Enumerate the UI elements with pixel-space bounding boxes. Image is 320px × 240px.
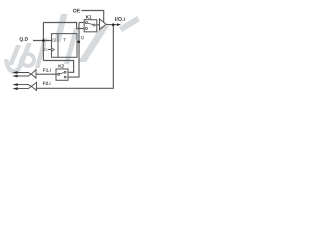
- mux K1 contacts and arm: [85, 22, 96, 30]
- arrowhead IO pin: [117, 23, 121, 26]
- wire OE to buffer enable: [82, 11, 104, 22]
- watermark: [4, 14, 140, 74]
- label K2: [59, 64, 64, 67]
- junction dot Q node: [78, 41, 81, 44]
- wire Q to K1 upper contact: [79, 22, 84, 24]
- arrowhead F1 lower: [12, 75, 17, 78]
- watermark wide slash band right: [78, 26, 109, 62]
- wire top rail to K1 lower contact: [43, 23, 84, 29]
- tri-state buffer: [100, 19, 107, 30]
- label Q: [81, 36, 84, 40]
- mux K2 contacts and arm: [56, 71, 66, 78]
- label T: [63, 38, 66, 41]
- watermark long slash through FF: [64, 28, 79, 64]
- label I/O.i: [115, 17, 124, 21]
- watermark u bowl: [4, 59, 24, 75]
- watermark top-right slab: [119, 16, 140, 32]
- label F2.i: [43, 82, 50, 85]
- wire buffer to IO node: [106, 24, 113, 26]
- feedback buffer F1: [31, 70, 36, 79]
- F1 fork wires: [16, 73, 31, 89]
- wire IO arrow line: [113, 24, 118, 26]
- wire Q vertical: [68, 23, 79, 78]
- label D pin: [53, 38, 56, 41]
- label Q.D: [20, 37, 28, 41]
- arrowhead F2 lower: [12, 87, 17, 90]
- watermark slash mid: [54, 14, 68, 42]
- flip-flop box: [52, 34, 78, 58]
- mux K1 box: [84, 20, 97, 32]
- junction dot node A: [42, 39, 45, 42]
- feedback buffer F2: [31, 82, 36, 90]
- watermark u stroke2: [19, 43, 32, 63]
- wire FF Q stub: [77, 41, 79, 43]
- watermark u stroke1: [8, 45, 21, 65]
- wire node A vertical: [42, 23, 44, 61]
- wire bottom rail to K2 upper contact: [43, 61, 73, 73]
- wire D input from array: [33, 40, 52, 42]
- watermark d bowl: [20, 52, 36, 68]
- F2 fork wires: [16, 85, 31, 87]
- arrowhead F1 upper: [12, 71, 17, 74]
- wire IO feedback vertical and bottom: [37, 25, 114, 89]
- wire K1 to buffer: [97, 24, 100, 26]
- label K1: [86, 15, 92, 18]
- label C clock: [44, 48, 47, 51]
- mux K2 box: [56, 69, 68, 80]
- wire K2 out to F1 buffer: [36, 73, 56, 75]
- arrowhead F2 upper: [12, 83, 17, 86]
- label OE: [73, 9, 80, 13]
- flip-flop clock chevron: [52, 48, 55, 52]
- junction dot IO node: [112, 23, 115, 26]
- wire C clock stub: [48, 49, 52, 51]
- watermark d stem: [35, 38, 48, 68]
- label F1.i: [43, 68, 50, 71]
